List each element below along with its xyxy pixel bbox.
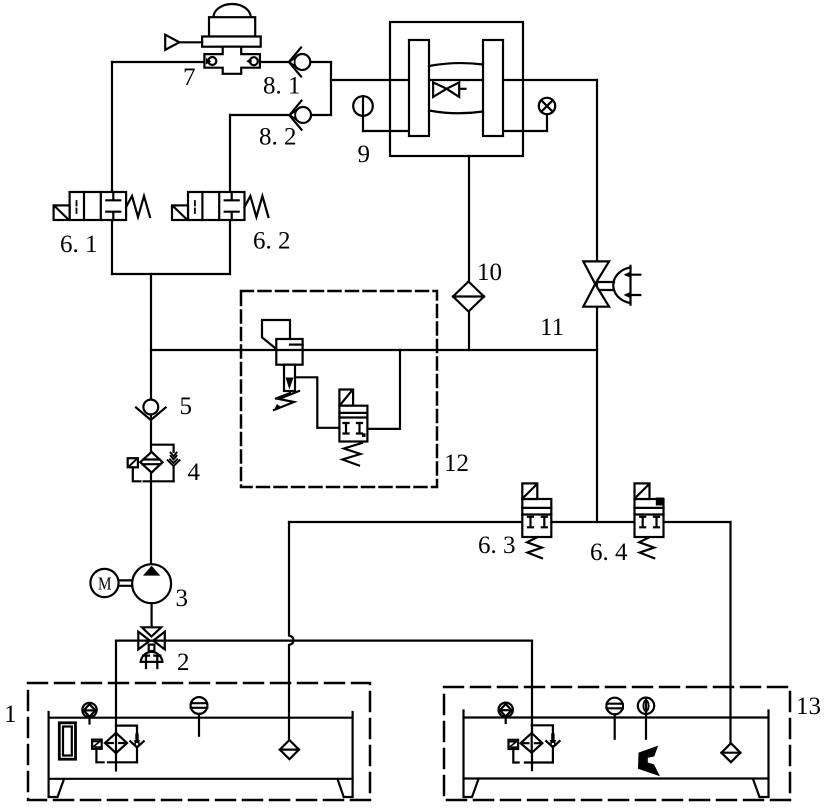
svg-text:3: 3 xyxy=(176,585,189,612)
tank 1 return filter with bypass xyxy=(92,726,144,763)
tank 1 level gauge xyxy=(59,723,75,759)
flow device 9 inner valve bowtie xyxy=(433,82,465,97)
wire: line y115 through check valve 8.2 xyxy=(230,114,331,116)
tank 13 level indicator xyxy=(638,698,654,739)
pump 3 xyxy=(132,564,171,603)
svg-text:11: 11 xyxy=(540,314,564,341)
wire: line y80 into and out of device 9 xyxy=(331,79,597,81)
pilot operated regulator valve 7 xyxy=(165,4,261,74)
solenoid cartridge valve in box 12 xyxy=(339,390,367,466)
wire: pump outlet to valve 2 xyxy=(151,603,153,627)
wire: gauge branch y131 left xyxy=(363,130,409,132)
svg-text:6. 4: 6. 4 xyxy=(590,539,628,566)
wire: riser x331 between 8.1 and 8.2 xyxy=(330,62,332,115)
flow device 9 right plate xyxy=(483,40,503,136)
wire: main riser x151 down to pump xyxy=(150,274,152,564)
dashed enclosure 1 xyxy=(28,683,370,800)
wire: right riser x597 from y80 to y522 xyxy=(596,80,598,522)
svg-text:8. 2: 8. 2 xyxy=(259,124,297,151)
wire: drop x469 from device 9 bottom to main line xyxy=(468,156,470,350)
wire: return header y640 xyxy=(116,639,532,641)
svg-text:6. 3: 6. 3 xyxy=(478,532,516,559)
wire: cartridge valve outlet up to main line xyxy=(367,350,400,429)
svg-text:12: 12 xyxy=(444,450,469,477)
control valve 11 xyxy=(583,261,640,306)
tank 1 suction strainer xyxy=(280,740,299,759)
check valve 8.1 xyxy=(289,48,310,77)
svg-text:7: 7 xyxy=(183,64,196,91)
wire: pilot valve drain to cartridge valve inlet xyxy=(295,377,339,428)
filter 4 with bypass and indicator xyxy=(128,445,180,482)
solenoid valve 6.2 xyxy=(172,192,268,220)
check valve 8.2 xyxy=(289,101,311,130)
svg-text:2: 2 xyxy=(177,649,190,676)
flow device 9 left plate xyxy=(409,40,429,136)
three-way valve 2 xyxy=(138,627,165,668)
solenoid valve 6.4 xyxy=(635,483,664,558)
pilot relief valve in box 12 xyxy=(262,320,303,410)
dashed enclosure 12 xyxy=(241,291,437,487)
indicator (circle-cross) at device 9 xyxy=(539,98,555,131)
svg-text:6. 1: 6. 1 xyxy=(60,231,98,258)
tank 13 return filter with bypass xyxy=(509,725,560,762)
pressure gauge at device 9 xyxy=(353,96,373,131)
wire: join line y274 under 6.1 and 6.2 xyxy=(112,273,230,275)
tank 1 shell xyxy=(49,712,353,797)
tank 13 suction strainer xyxy=(721,743,740,762)
wire: main horizontal line y350 xyxy=(151,349,597,351)
wire: drop x532 into tank 13 xyxy=(531,641,533,771)
svg-text:8. 1: 8. 1 xyxy=(263,73,301,100)
flow device 9 outer case xyxy=(390,22,523,156)
svg-text:4: 4 xyxy=(188,459,201,486)
filter 10 xyxy=(453,282,484,312)
wire: indicator branch y131 right xyxy=(503,130,547,132)
wire: drop x116 into tank 1 xyxy=(115,641,117,771)
flow device 9 lower membrane xyxy=(429,111,483,114)
wire: pilot header y522 xyxy=(289,521,731,523)
wire: drop x730 into tank 13 strainer xyxy=(729,522,731,744)
flow device 9 upper membrane xyxy=(429,63,483,66)
wire: riser x230 to valve 6.2 xyxy=(229,115,231,274)
solenoid valve 6.3 xyxy=(522,483,551,558)
svg-text:M: M xyxy=(98,574,112,594)
tank 13 air breather xyxy=(499,703,513,723)
svg-text:13: 13 xyxy=(796,693,821,720)
svg-text:9: 9 xyxy=(358,141,371,168)
dashed enclosure 13 xyxy=(444,687,790,800)
tank 13 breather cap xyxy=(606,698,623,739)
svg-text:1: 1 xyxy=(4,701,17,728)
wire: left riser x112 to valve 6.1 xyxy=(111,62,113,274)
solenoid valve 6.1 xyxy=(54,192,150,220)
tank 1 breather cap xyxy=(191,697,208,736)
motor M xyxy=(90,569,132,597)
tank 13 shell xyxy=(464,711,769,798)
wire: drop x289 with crossover hop xyxy=(289,522,294,740)
check valve 5 xyxy=(136,400,166,420)
tank 1 air breather xyxy=(82,703,96,724)
svg-text:10: 10 xyxy=(477,259,502,286)
svg-text:6. 2: 6. 2 xyxy=(253,228,291,255)
svg-text:5: 5 xyxy=(180,393,193,420)
wire: supply line y62 from left riser to check valve 8.1 xyxy=(112,61,331,63)
tank 13 heater xyxy=(639,747,658,774)
